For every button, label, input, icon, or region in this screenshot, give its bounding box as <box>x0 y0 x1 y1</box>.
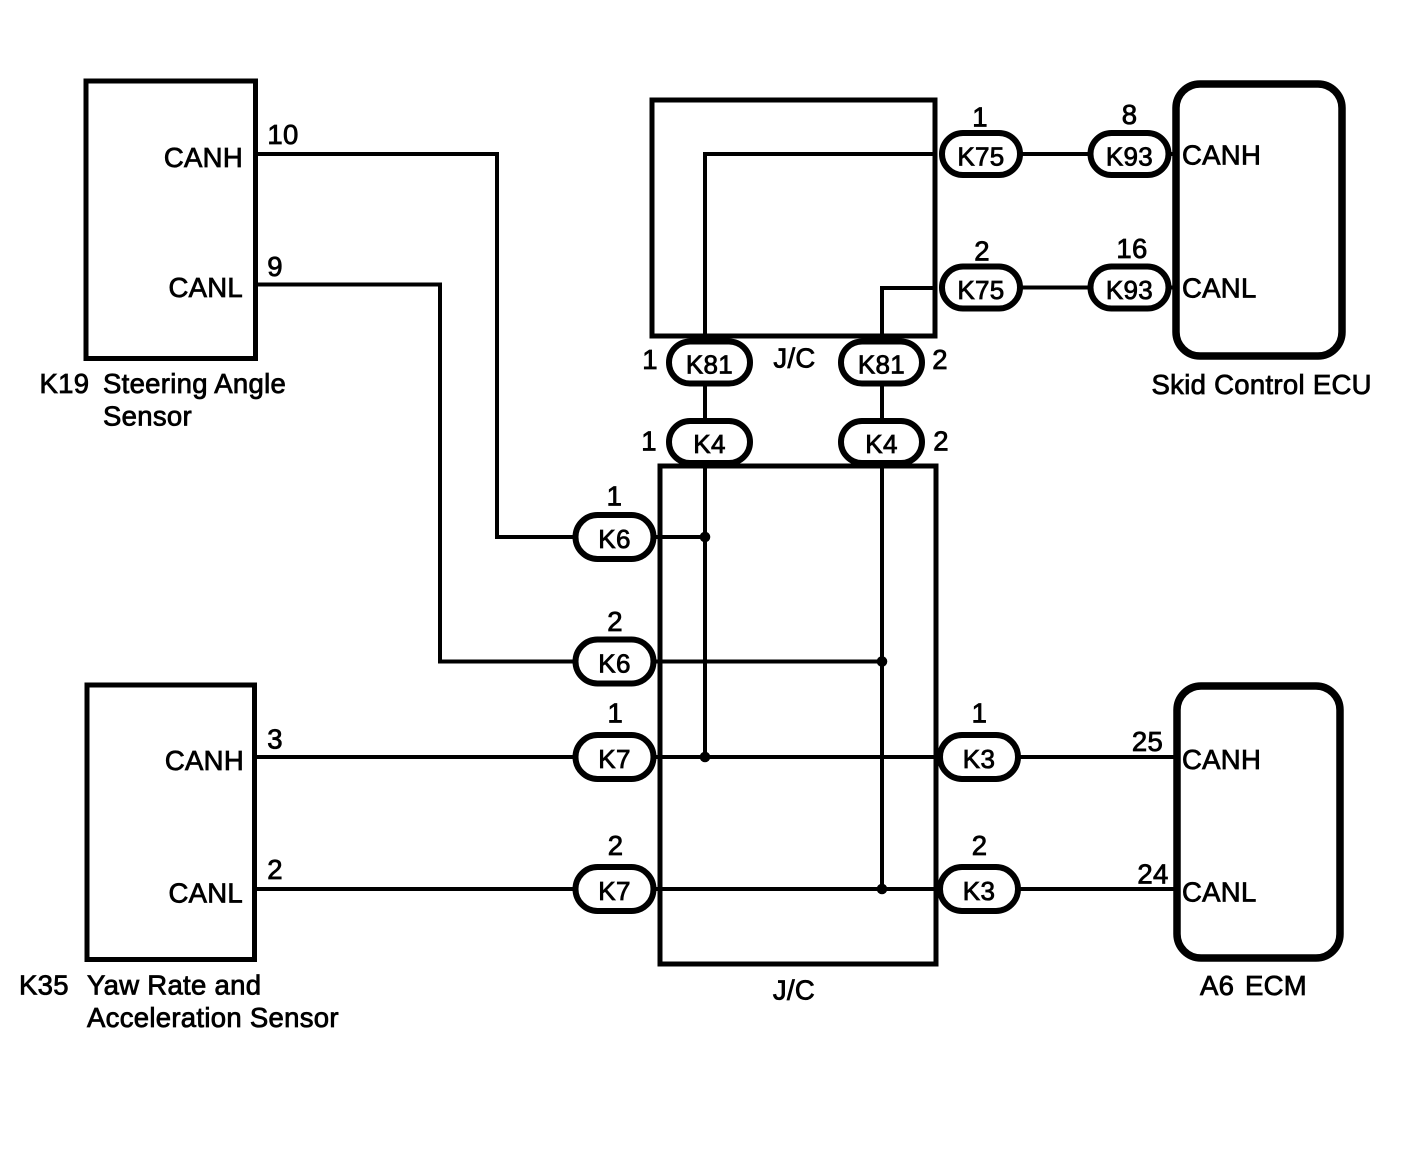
svg-text:CANL: CANL <box>168 272 243 303</box>
svg-text:J/C: J/C <box>773 975 815 1006</box>
svg-text:K75: K75 <box>957 275 1004 305</box>
svg-text:8: 8 <box>1122 99 1138 130</box>
svg-text:K4: K4 <box>865 429 897 459</box>
svg-text:CANL: CANL <box>168 878 243 909</box>
svg-text:J/C: J/C <box>773 343 815 374</box>
svg-text:K75: K75 <box>957 142 1004 172</box>
svg-text:CANH: CANH <box>164 142 243 173</box>
svg-text:K81: K81 <box>686 350 733 380</box>
svg-text:K81: K81 <box>858 350 905 380</box>
svg-text:2: 2 <box>267 854 283 885</box>
svg-text:ECM: ECM <box>1245 970 1307 1001</box>
svg-text:Acceleration Sensor: Acceleration Sensor <box>87 1002 339 1033</box>
svg-text:10: 10 <box>267 119 298 150</box>
svg-text:K3: K3 <box>963 876 995 906</box>
svg-text:16: 16 <box>1116 233 1147 264</box>
svg-text:2: 2 <box>933 426 949 457</box>
svg-text:1: 1 <box>972 698 988 729</box>
svg-text:K7: K7 <box>598 744 630 774</box>
svg-text:A6: A6 <box>1200 970 1234 1001</box>
svg-text:Yaw Rate and: Yaw Rate and <box>87 970 261 1001</box>
svg-text:CANL: CANL <box>1182 273 1257 304</box>
svg-text:1: 1 <box>607 481 623 512</box>
svg-text:Steering Angle: Steering Angle <box>103 368 286 399</box>
svg-text:CANH: CANH <box>165 745 244 776</box>
svg-text:25: 25 <box>1132 726 1163 757</box>
svg-text:K93: K93 <box>1106 142 1153 172</box>
svg-text:K93: K93 <box>1106 275 1153 305</box>
svg-text:9: 9 <box>267 251 283 282</box>
svg-text:CANH: CANH <box>1182 140 1261 171</box>
svg-text:1: 1 <box>972 102 988 133</box>
svg-text:Skid Control ECU: Skid Control ECU <box>1152 369 1372 400</box>
svg-text:CANH: CANH <box>1182 744 1261 775</box>
svg-text:24: 24 <box>1137 859 1168 890</box>
svg-text:K19: K19 <box>40 368 90 399</box>
svg-text:K6: K6 <box>598 524 630 554</box>
svg-text:2: 2 <box>972 830 988 861</box>
svg-text:2: 2 <box>932 344 948 375</box>
svg-text:2: 2 <box>607 606 623 637</box>
svg-text:1: 1 <box>607 698 623 729</box>
svg-text:3: 3 <box>267 724 283 755</box>
svg-text:1: 1 <box>641 426 657 457</box>
svg-text:K7: K7 <box>598 876 630 906</box>
svg-text:K35: K35 <box>19 970 69 1001</box>
svg-text:K4: K4 <box>693 429 725 459</box>
svg-text:2: 2 <box>608 830 624 861</box>
svg-text:K3: K3 <box>963 744 995 774</box>
svg-text:CANL: CANL <box>1182 877 1257 908</box>
svg-text:2: 2 <box>974 236 990 267</box>
svg-text:K6: K6 <box>598 649 630 679</box>
svg-text:1: 1 <box>642 344 658 375</box>
svg-text:Sensor: Sensor <box>103 401 192 432</box>
